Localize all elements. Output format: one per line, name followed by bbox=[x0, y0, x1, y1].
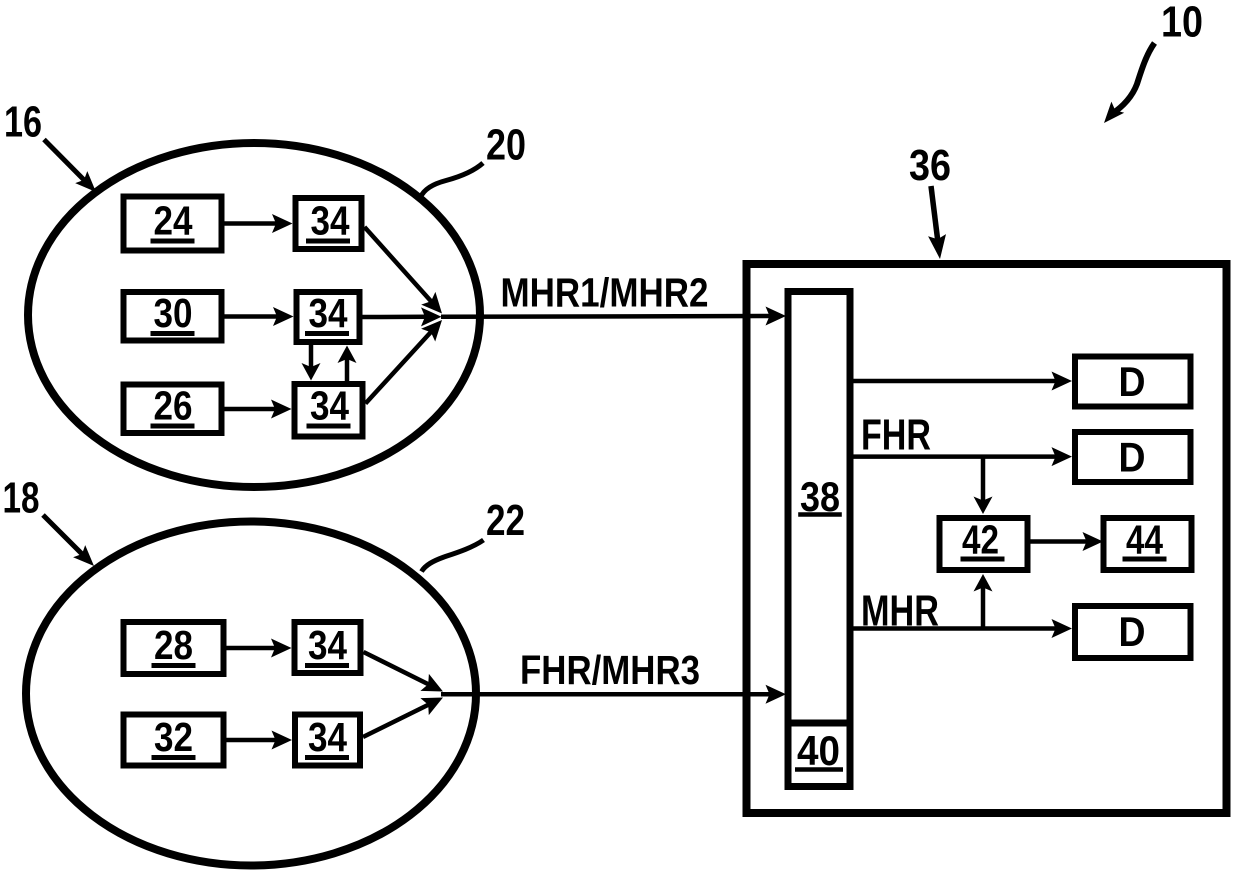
ellipse 18 (second sensor group, boundary 22) bbox=[26, 522, 476, 866]
wire MHR1/MHR2 (node A to block 38) bbox=[441, 307, 786, 326]
leader curve 22 bbox=[422, 540, 484, 572]
svg-text:40: 40 bbox=[797, 727, 840, 774]
leader arrow 18 bbox=[43, 515, 94, 566]
block 28 bbox=[124, 622, 224, 674]
label 36 bbox=[909, 141, 951, 190]
wire MHR (38 to display D3) bbox=[854, 619, 1073, 638]
svg-text:28: 28 bbox=[154, 622, 193, 668]
net label FHR/MHR3 bbox=[520, 647, 700, 693]
wire 38 to display D1 bbox=[854, 372, 1073, 391]
wire 34 row1 to node A (diagonal) bbox=[365, 227, 443, 314]
svg-text:34: 34 bbox=[308, 714, 347, 760]
svg-text:24: 24 bbox=[154, 198, 193, 244]
svg-text:MHR1/MHR2: MHR1/MHR2 bbox=[501, 270, 709, 316]
svg-text:34: 34 bbox=[309, 290, 348, 336]
svg-text:22: 22 bbox=[486, 496, 525, 545]
net label FHR bbox=[861, 411, 931, 460]
leader arrow 16 bbox=[44, 140, 96, 193]
block 32 bbox=[124, 714, 224, 766]
svg-text:D: D bbox=[1119, 358, 1146, 405]
leader arrow 36 bbox=[928, 186, 946, 259]
leader curve 20 bbox=[420, 163, 483, 198]
label 10 bbox=[1161, 0, 1203, 47]
svg-text:42: 42 bbox=[962, 517, 999, 563]
wire 34 row3 to node A (diagonal) bbox=[366, 320, 443, 404]
wire 24 to 34 bbox=[225, 214, 293, 233]
svg-text:32: 32 bbox=[154, 714, 193, 760]
wire 26 to 34 bbox=[225, 400, 292, 419]
wire 34 row2 to node A (horizontal) bbox=[363, 307, 442, 326]
block 34 (row 5) bbox=[295, 714, 360, 766]
block D1 (display) bbox=[1075, 357, 1191, 407]
label 18 bbox=[3, 474, 40, 523]
label 22 bbox=[486, 496, 525, 545]
wire MHR branch up to 42 bbox=[974, 574, 993, 629]
wire 42 to 44 bbox=[1029, 532, 1103, 551]
svg-text:18: 18 bbox=[3, 474, 40, 523]
wire 34 row3 up to 34 row2 bbox=[338, 346, 357, 382]
leader arrow 10 bbox=[1104, 43, 1155, 123]
block 38 (interface column) bbox=[788, 292, 850, 787]
svg-text:30: 30 bbox=[154, 290, 193, 336]
svg-text:44: 44 bbox=[1126, 517, 1163, 563]
wire FHR (38 to display D2) bbox=[854, 447, 1073, 466]
svg-text:34: 34 bbox=[308, 622, 347, 668]
label 40 bbox=[795, 727, 843, 774]
block 36 (monitor outer box) bbox=[747, 264, 1227, 813]
block 26 bbox=[124, 383, 222, 434]
block 34 (row 2) bbox=[297, 290, 360, 342]
label 20 bbox=[486, 121, 526, 170]
block 24 bbox=[124, 197, 222, 251]
block 42 (comparator) bbox=[940, 517, 1028, 571]
svg-text:34: 34 bbox=[311, 198, 350, 244]
block 44 bbox=[1104, 517, 1192, 571]
block D2 (display) bbox=[1075, 432, 1191, 482]
wire 34 row5 to node B (diagonal) bbox=[363, 698, 443, 738]
wire 34 row2 down to 34 row3 bbox=[302, 345, 321, 381]
svg-text:16: 16 bbox=[4, 98, 42, 147]
svg-text:FHR/MHR3: FHR/MHR3 bbox=[520, 647, 700, 693]
wire 34 row4 to node B (diagonal) bbox=[364, 652, 444, 692]
svg-text:D: D bbox=[1119, 434, 1146, 481]
net label MHR bbox=[861, 587, 939, 636]
block 34 (row 3) bbox=[295, 383, 363, 437]
ellipse 16 (first sensor group, boundary 20) bbox=[28, 143, 480, 487]
wire FHR/MHR3 (node B to block 38) bbox=[441, 685, 786, 704]
wire 32 to 34 bbox=[227, 731, 293, 750]
svg-text:26: 26 bbox=[154, 383, 193, 429]
block 34 (row 1) bbox=[296, 198, 362, 250]
label 16 bbox=[4, 98, 42, 147]
block 30 bbox=[124, 290, 222, 341]
net label MHR1/MHR2 bbox=[501, 270, 709, 316]
svg-text:36: 36 bbox=[909, 141, 951, 190]
wire 28 to 34 bbox=[227, 639, 292, 658]
svg-text:FHR: FHR bbox=[861, 411, 931, 460]
svg-text:20: 20 bbox=[486, 121, 526, 170]
wire 30 to 34 bbox=[225, 307, 294, 326]
svg-text:D: D bbox=[1119, 608, 1146, 655]
svg-text:34: 34 bbox=[310, 383, 349, 429]
block 34 (row 4) bbox=[295, 622, 361, 673]
svg-text:10: 10 bbox=[1161, 0, 1203, 47]
block D3 (display) bbox=[1075, 606, 1191, 658]
wire FHR branch down to 42 bbox=[974, 457, 993, 514]
divider block 40 top bbox=[788, 720, 850, 727]
